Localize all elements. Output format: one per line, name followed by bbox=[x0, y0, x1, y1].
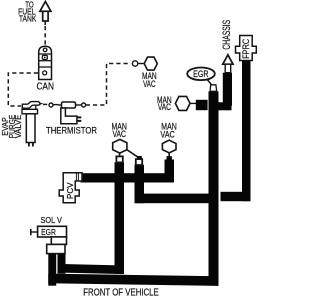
svg-text:FPRC: FPRC bbox=[241, 38, 251, 59]
svg-text:VAC: VAC bbox=[158, 102, 171, 112]
svg-text:VAC: VAC bbox=[112, 129, 126, 139]
svg-text:PCV: PCV bbox=[65, 182, 75, 199]
svg-text:EGR: EGR bbox=[41, 227, 56, 237]
svg-text:THERMISTOR: THERMISTOR bbox=[46, 125, 97, 135]
svg-text:TANK: TANK bbox=[19, 13, 37, 23]
svg-text:CHASSIS: CHASSIS bbox=[221, 20, 233, 50]
svg-text:EGR: EGR bbox=[193, 69, 209, 79]
svg-text:CAN: CAN bbox=[36, 81, 54, 92]
svg-text:SOL V: SOL V bbox=[41, 215, 63, 225]
svg-text:VAC: VAC bbox=[160, 129, 175, 139]
svg-text:VAC: VAC bbox=[143, 79, 156, 89]
svg-text:FRONT OF VEHICLE: FRONT OF VEHICLE bbox=[83, 288, 159, 299]
svg-text:VALVE: VALVE bbox=[14, 115, 23, 139]
